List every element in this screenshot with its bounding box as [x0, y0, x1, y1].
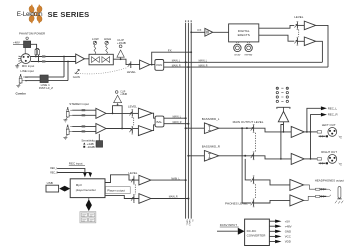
op-amp main R — [291, 153, 304, 164]
svg-text:REC input: REC input — [69, 162, 83, 166]
svg-text:MAIN OUTPUT LEVEL: MAIN OUTPUT LEVEL — [233, 120, 264, 124]
op-amp bass L — [204, 123, 218, 134]
arrow dc input — [238, 228, 245, 235]
knob DELAY — [234, 42, 242, 57]
wire main L out — [304, 131, 317, 133]
op-amp stereo in L — [96, 108, 106, 118]
svg-text:LEFT OUT: LEFT OUT — [322, 123, 336, 127]
node FX bus join — [190, 51, 192, 53]
sd diamond link — [86, 198, 92, 211]
digital effects box U1 — [229, 24, 259, 42]
wire stereo L ring — [72, 114, 96, 116]
potentiometer FX return L — [295, 21, 299, 29]
svg-text:+48V: +48V — [285, 224, 292, 228]
usb box — [46, 185, 59, 192]
wire pot to stereo amp R — [133, 128, 139, 130]
node bus MAIN_L mic — [185, 61, 187, 63]
svg-text:E-Lektron: E-Lektron — [17, 11, 43, 18]
potentiometer stereo level R — [129, 126, 133, 134]
svg-text:REPEAT: REPEAT — [245, 54, 254, 57]
svg-text:FX: FX — [198, 28, 202, 32]
node clip tap L stereo — [112, 113, 114, 115]
mp3 player box U2 — [70, 179, 105, 198]
dashed gang fx return — [298, 30, 300, 37]
wire REC_L in — [57, 168, 85, 172]
svg-text:+5V: +5V — [285, 219, 290, 223]
ground stereo jack L — [63, 117, 67, 122]
wire phones feed L — [242, 128, 251, 203]
wire REC_L — [307, 108, 321, 132]
svg-text:MAIN_L: MAIN_L — [173, 115, 182, 118]
svg-text:DC6V INPUT: DC6V INPUT — [220, 223, 237, 227]
wire dc out 1 — [269, 220, 275, 222]
node combo cold — [67, 61, 69, 63]
bus bottom labels — [185, 220, 193, 227]
svg-text:VCC: VCC — [285, 235, 291, 239]
wire bal out R — [164, 123, 189, 125]
svg-text:GAIN: GAIN — [73, 75, 80, 79]
connector phones jack B — [304, 195, 331, 201]
arrow +5V — [275, 220, 281, 223]
wire phones feed R — [245, 159, 251, 180]
clip LED mic — [117, 38, 126, 59]
node bal L bus — [185, 117, 187, 119]
node REC_R tap — [310, 158, 312, 160]
arrow VCC — [275, 235, 281, 238]
svg-text:LEVEL: LEVEL — [294, 15, 303, 19]
dashed gang main level — [254, 133, 256, 152]
svg-text:MAIN_L: MAIN_L — [171, 177, 180, 180]
pad switch stereo R ring — [82, 130, 86, 132]
sd cards icon — [80, 212, 96, 223]
node player R bus — [187, 198, 189, 200]
svg-text:FX: FX — [168, 49, 172, 53]
node main level L — [246, 127, 248, 129]
wire stereo R tip — [72, 125, 96, 127]
svg-text:+15dB: +15dB — [117, 41, 126, 45]
wire player L to bus — [151, 179, 186, 181]
svg-text:Player output: Player output — [107, 188, 125, 192]
wire player out R — [105, 195, 139, 198]
dashed link gain-level — [80, 68, 128, 74]
svg-text:SE SERIES: SE SERIES — [48, 10, 90, 19]
svg-text:REC_R: REC_R — [50, 172, 58, 174]
node bal R bus — [187, 123, 189, 125]
op-amp stereo ch L — [138, 108, 152, 118]
wire mic line cold — [31, 61, 76, 63]
svg-text:REC_R: REC_R — [328, 113, 338, 117]
resistor R phantom A — [35, 50, 37, 55]
svg-text:+15dB: +15dB — [120, 94, 127, 96]
wire ampR to bal — [152, 125, 155, 131]
pad switch stereo L ring — [82, 114, 86, 116]
potentiometer FX return R — [295, 37, 299, 45]
wire level to main amp R — [254, 156, 291, 159]
dcdc converter box U3 — [245, 219, 270, 245]
wire ampL to bal — [152, 113, 155, 118]
op-amp phones A — [290, 179, 304, 190]
wire stereo R ring — [72, 130, 96, 132]
wire dc out 3 — [269, 230, 275, 232]
svg-text:BASS/MID_L: BASS/MID_L — [202, 117, 220, 121]
node phantom-micR — [38, 61, 40, 63]
wire level to main amp L — [254, 128, 291, 132]
ground stereo jack R — [63, 135, 67, 140]
potentiometer player level L — [131, 176, 135, 184]
wire pot to fx amp L — [297, 24, 304, 26]
wire player out L — [105, 175, 139, 183]
potentiometer LEVEL mic — [128, 61, 131, 68]
wire phones pot B to amp — [254, 200, 290, 203]
svg-text:MIC input: MIC input — [22, 64, 35, 68]
node FX bus top — [190, 31, 192, 33]
wire line ring — [25, 80, 40, 82]
svg-text:MAIN_R: MAIN_R — [173, 121, 182, 124]
op-amp stereo in R — [96, 124, 106, 134]
headphone plug icon — [335, 187, 343, 204]
wire stereo amp L out — [106, 112, 131, 114]
wire resistors to mic lines — [36, 55, 39, 62]
node player L bus — [185, 179, 187, 181]
svg-text:EFECTS: EFECTS — [238, 33, 250, 37]
pad switch stereo L tip — [82, 109, 86, 111]
svg-text:BAL: BAL — [157, 120, 163, 124]
svg-text:Mp3: Mp3 — [76, 183, 82, 187]
wire line out ring — [48, 80, 68, 82]
connector LEFT OUT — [317, 127, 342, 138]
svg-text:VDD: VDD — [285, 240, 291, 244]
node REC_L tap — [306, 131, 308, 133]
label DC6V INPUT — [220, 223, 239, 227]
op-amp stereo ch R — [138, 126, 152, 136]
wire effects out L — [259, 25, 295, 28]
op-amp player L — [139, 175, 151, 185]
wire bass R to level — [219, 155, 253, 157]
wire fx return L wrap — [316, 25, 328, 67]
svg-text:MAIN_L: MAIN_L — [185, 220, 188, 226]
svg-text:BASS/MID_R: BASS/MID_R — [202, 145, 221, 149]
arrow GND — [275, 230, 281, 233]
bus line MAIN_R — [187, 23, 189, 219]
node meter tap R — [280, 158, 282, 160]
switch +48V — [13, 40, 24, 44]
svg-text:USB: USB — [47, 181, 53, 185]
wire meter tap R — [281, 125, 284, 159]
connector RIGHT OUT — [317, 155, 342, 166]
node clip tap R stereo — [121, 128, 123, 130]
wire player R to bus — [151, 198, 189, 200]
wire MAIN_L run mic — [164, 61, 323, 63]
legend sensitivity — [81, 139, 95, 149]
svg-text:STEREO input: STEREO input — [69, 102, 89, 106]
svg-text:MAIN_R: MAIN_R — [199, 64, 208, 67]
wire meter tap L — [283, 122, 285, 132]
svg-text:MAIN_L: MAIN_L — [172, 60, 181, 63]
node combo hot — [63, 56, 65, 58]
op-amp meter driver — [278, 111, 288, 121]
LED meter array — [276, 87, 288, 103]
bus line MAIN_L — [185, 23, 187, 219]
potentiometer player level R — [131, 195, 135, 203]
op-amp phones B — [290, 195, 304, 206]
label REC input — [69, 162, 85, 166]
wire dc out 4 — [269, 235, 275, 237]
svg-text:GND: GND — [285, 229, 291, 233]
op-amp mic channel — [140, 60, 150, 69]
dashed gang stereo level — [133, 118, 135, 127]
node meter tap L — [283, 131, 285, 133]
wire dc out 5 — [269, 241, 275, 243]
node phones tap R — [244, 155, 246, 157]
wire amp to pan — [150, 64, 155, 66]
label Player output — [106, 187, 131, 194]
wire fx return R wrap — [316, 41, 323, 62]
line pad box — [40, 75, 48, 83]
arrow +48V — [275, 225, 281, 228]
node phantom-micL — [35, 56, 37, 58]
potentiometer phones level B — [251, 199, 255, 207]
svg-text:MAIN_R: MAIN_R — [169, 196, 178, 199]
wire phones pot A to amp — [254, 180, 290, 185]
svg-text:REC_L: REC_L — [328, 106, 338, 110]
svg-text:DELAY: DELAY — [234, 54, 241, 57]
connector XLR MIC input — [18, 54, 31, 64]
svg-text:MAIN_R: MAIN_R — [188, 220, 191, 227]
bus top marks — [185, 20, 192, 22]
dashed gang player level — [134, 185, 136, 195]
wire EQ to level pot — [113, 59, 139, 64]
connector line jack — [19, 74, 27, 83]
pan box PAN — [155, 60, 164, 71]
ground line jack — [16, 83, 20, 88]
wire mic line hot — [31, 56, 76, 58]
node bass tap L — [185, 127, 187, 129]
svg-text:-10dB: -10dB — [87, 145, 95, 149]
svg-text:+48V: +48V — [13, 40, 20, 44]
potentiometer main level R — [251, 152, 255, 160]
op-amp FX return R — [304, 37, 315, 46]
connector stereo jack R — [66, 125, 72, 135]
wire pot to stereo amp L — [133, 112, 139, 114]
svg-text:HIGH: HIGH — [104, 37, 111, 41]
svg-text:player/recorder: player/recorder — [76, 188, 96, 192]
wire stereo amp R out — [106, 128, 131, 130]
arrow VDD — [275, 240, 281, 243]
svg-text:LEVEL: LEVEL — [127, 70, 136, 74]
wire dc input — [217, 230, 238, 232]
wire phantom to resistors — [31, 44, 39, 49]
node bus MAIN_R mic — [187, 66, 189, 68]
dashed gang phones level — [254, 184, 256, 199]
op-amp main L — [291, 126, 304, 137]
bus line FX — [190, 23, 192, 219]
potentiometer phones level A — [251, 176, 255, 184]
wire bus to bass amp R — [188, 155, 204, 157]
svg-text:CONVERTER: CONVERTER — [247, 233, 267, 237]
svg-text:LOW: LOW — [92, 37, 99, 41]
wire line out tip — [48, 76, 64, 78]
phantom LED — [26, 37, 28, 39]
arrow REC_R in — [89, 173, 93, 177]
svg-text:MAIN_L: MAIN_L — [199, 60, 208, 63]
svg-text:PHANTOM POWER: PHANTOM POWER — [19, 31, 45, 35]
potentiometer LOW — [92, 37, 99, 55]
svg-text:INST-HI_Z: INST-HI_Z — [39, 86, 53, 90]
svg-text:HEADPHONES output: HEADPHONES output — [315, 179, 344, 183]
potentiometer main level L — [251, 124, 255, 132]
resistor R phantom B — [38, 50, 40, 55]
wire clip bracket stereo — [113, 106, 123, 129]
svg-text:Combo: Combo — [16, 92, 26, 96]
svg-text:LEVEL: LEVEL — [128, 104, 137, 108]
wire bal out L — [164, 117, 186, 119]
svg-text:LEVEL: LEVEL — [128, 171, 137, 175]
node REC_R cross — [310, 131, 312, 133]
node phones tap L — [241, 127, 243, 129]
connector phones jack A — [304, 185, 331, 191]
op-amp mic preamp — [76, 54, 85, 64]
wire REC_R in — [57, 172, 90, 174]
capacitor block mic cold — [42, 60, 45, 62]
connector stereo jack L — [66, 107, 72, 117]
potentiometer HIGH — [104, 37, 111, 55]
node FX tap mic — [151, 64, 153, 66]
wire FX amp to effects — [213, 31, 229, 33]
wire preamp to EQ — [85, 58, 90, 60]
usb diamond link — [59, 186, 70, 192]
svg-text:PHONES LEVEL: PHONES LEVEL — [225, 202, 248, 206]
op-amp bass R — [204, 151, 218, 162]
potentiometer stereo level L — [129, 110, 133, 118]
logo icon E-Lektron emblem — [28, 5, 42, 24]
wire effects out R — [259, 35, 295, 41]
op-amp FX return L — [304, 21, 315, 30]
phantom supply box — [24, 41, 31, 48]
op-amp player R — [139, 194, 151, 204]
potentiometer GAIN — [75, 69, 80, 74]
wire line tip — [25, 76, 40, 78]
wire bass L to level — [219, 127, 253, 129]
wire main R out — [304, 158, 317, 160]
svg-text:PAN: PAN — [156, 63, 162, 67]
clip LED stereo — [114, 91, 128, 106]
svg-text:LINE input: LINE input — [20, 69, 34, 73]
connector RCA stereo — [96, 134, 103, 147]
EQ box mic — [89, 54, 113, 65]
op-amp FX send — [205, 28, 213, 36]
arrow REC_L — [321, 106, 327, 110]
capacitor block mic hot — [42, 55, 45, 57]
ground mic — [15, 62, 22, 68]
wire dc out 2 — [269, 225, 275, 227]
node EQ out — [120, 58, 122, 60]
wire MAIN_R run mic — [164, 66, 328, 68]
wire FX bus to FX amp — [191, 31, 205, 33]
wire meter bracket — [277, 107, 291, 111]
svg-text:REC_L: REC_L — [50, 168, 58, 170]
wire pot to fx amp R — [297, 40, 304, 42]
pad switch stereo R tip — [82, 125, 86, 127]
svg-text:RIGHT OUT: RIGHT OUT — [321, 150, 337, 154]
wire phantom box to XLR — [24, 48, 26, 54]
wire bus to bass amp L — [186, 127, 205, 129]
knob REPEAT — [245, 42, 254, 57]
wire REC_R — [311, 115, 321, 159]
arrow REC_L in — [83, 173, 87, 177]
node bass tap R — [187, 155, 189, 157]
wire stereo L tip — [72, 109, 96, 111]
balance box BAL — [155, 116, 164, 127]
svg-text:MAIN_R: MAIN_R — [172, 64, 181, 67]
wire combo risers — [64, 57, 68, 81]
wire FX send mic — [152, 52, 192, 64]
arrow REC_R — [321, 113, 327, 117]
